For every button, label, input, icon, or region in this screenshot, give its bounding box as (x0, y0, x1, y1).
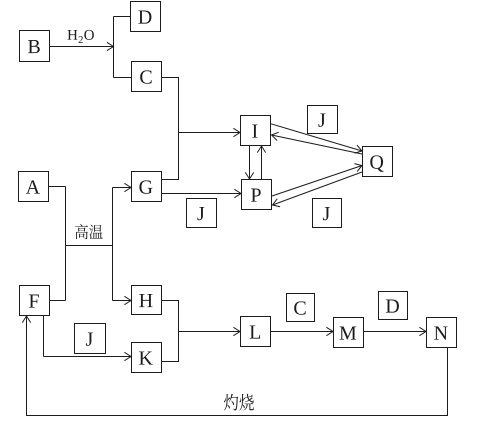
box G (132, 172, 162, 202)
wire F down (43, 316, 45, 357)
arrow P to Q (272, 164, 362, 196)
wire fork vertical D-C (113, 17, 115, 78)
arrow I down to P (245, 146, 253, 180)
arrow feedback into F (22, 316, 30, 330)
arrow fork to G (113, 183, 132, 191)
arrow I to Q (271, 124, 362, 153)
wire fork to D (114, 16, 131, 18)
wire fork vertical G-H (112, 188, 114, 301)
wire A right (49, 186, 66, 188)
label box J (P-Q route) (313, 199, 342, 228)
arrow G to P (161, 189, 241, 197)
arrow P up to I (257, 146, 265, 180)
box C top (132, 62, 162, 92)
wire F right (50, 300, 66, 302)
label box D (M-N route) (379, 292, 408, 320)
label box J (G-P route) (187, 199, 217, 228)
wire H right elbow down (161, 301, 179, 332)
arrow fork to H (113, 296, 132, 304)
label box J (F-K route) (75, 324, 106, 354)
arrow Q to I (272, 132, 363, 154)
box H (132, 286, 162, 315)
wire gaowen horizontal (66, 245, 113, 247)
label box J (I-Q route) (308, 106, 338, 134)
box D top (131, 2, 161, 32)
wire C right elbow down to G (161, 78, 179, 180)
label H2O over arrow B (68, 30, 94, 43)
box P (242, 180, 272, 210)
wire N feedback bottom (27, 316, 448, 416)
label ZhuoShao (calcination) (224, 394, 254, 411)
box N (427, 318, 457, 348)
box F (20, 286, 50, 316)
arrow CG junction to I (179, 128, 241, 136)
box I (241, 116, 271, 146)
arrow M to N (363, 327, 426, 335)
box L (241, 317, 271, 347)
arrow L to M (271, 327, 333, 335)
box B (20, 31, 50, 62)
arrow B to fork junction (50, 42, 114, 50)
wire A-F vertical (65, 187, 67, 301)
label GaoWen (high temperature) (75, 224, 103, 239)
box Q (363, 147, 393, 177)
box A (19, 172, 49, 202)
box K (132, 343, 162, 373)
box M (334, 318, 364, 348)
arrow F elbow to K (44, 352, 132, 360)
wire K right elbow up (161, 332, 179, 362)
wire fork to C (114, 77, 132, 79)
label box C (L-M route) (287, 294, 315, 322)
arrow Q to P (273, 172, 363, 207)
arrow HK junction to L (179, 327, 241, 335)
